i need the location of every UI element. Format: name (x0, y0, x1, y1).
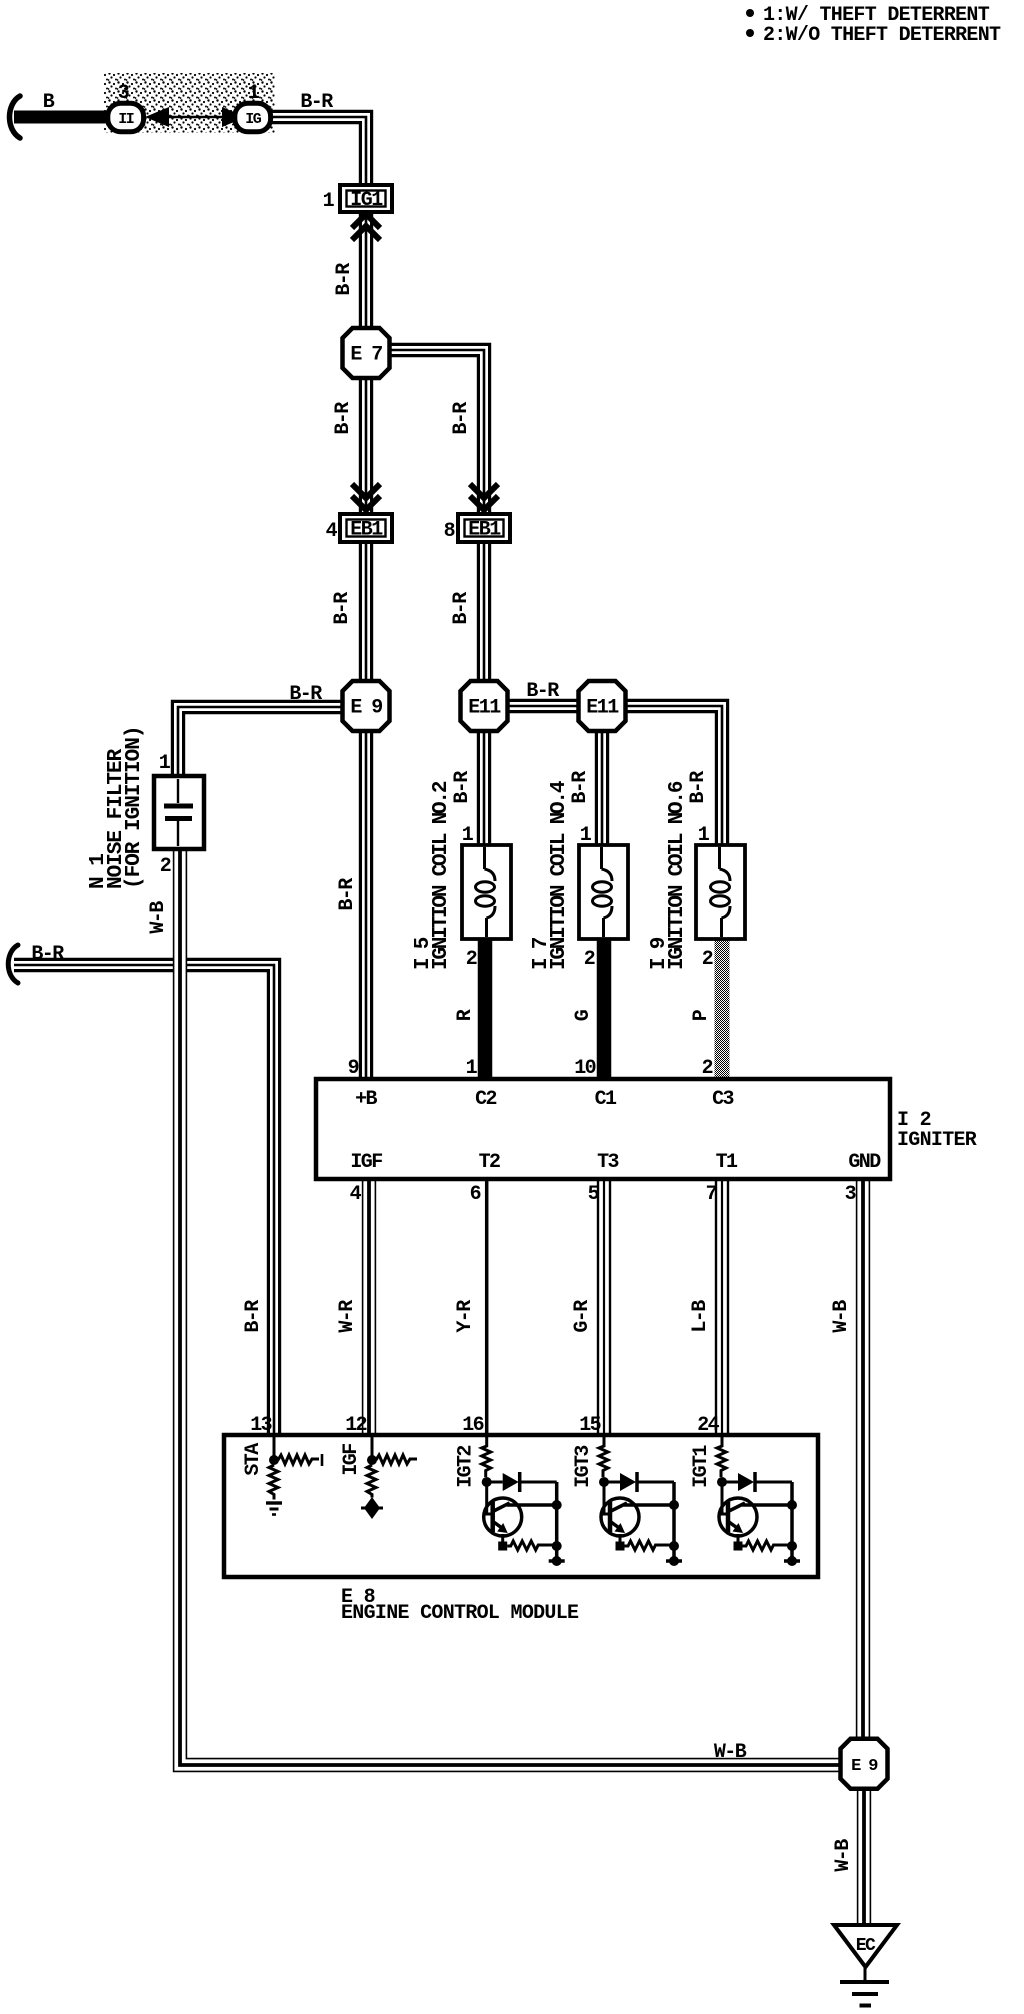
brace wire-continues left top (10, 96, 21, 138)
svg-text:B-R: B-R (526, 680, 559, 703)
svg-text:R: R (454, 1009, 477, 1021)
ECM IGT1 output stage with transistor Q1 (717, 1437, 800, 1566)
igniter I2 box (316, 1079, 890, 1179)
svg-text:B-R: B-R (687, 771, 710, 804)
wire B thick battery feed top-left (14, 111, 112, 124)
svg-text:8: 8 (444, 520, 455, 543)
wire W-B connector E9 down to ground EC (857, 1788, 871, 1927)
svg-text:C1: C1 (595, 1088, 617, 1111)
wire W-B igniter pin 3 GND down to connector E9 (856, 1179, 870, 1740)
connector oval II pin 3 (108, 103, 144, 132)
wire W-R igniter T2pin4 IGF to ECM pin 12 (362, 1179, 376, 1435)
svg-text:B-R: B-R (289, 683, 322, 706)
ECM E8 box (224, 1435, 818, 1577)
wire R ignition coil no.2 pin 2 to igniter C2 (478, 939, 493, 1081)
svg-text:B-R: B-R (450, 592, 473, 625)
svg-text:T1: T1 (716, 1151, 738, 1174)
svg-text:B-R: B-R (450, 402, 473, 435)
connector octagon E9 bottom right (841, 1739, 888, 1789)
connector octagon E9 (343, 681, 390, 731)
svg-text:EB1: EB1 (350, 519, 383, 542)
svg-text:B-R: B-R (31, 943, 64, 966)
connector octagon E11 first (461, 681, 508, 731)
wire B-R connector E7 right branch down to junction EB1 pin8 (388, 350, 484, 515)
wire B-R connector E11 down to ignition coil no.2 pin 1 (477, 730, 491, 846)
svg-text:P: P (690, 1009, 713, 1021)
ground symbol below EC (840, 1965, 889, 2006)
svg-text:E 9: E 9 (350, 697, 382, 720)
svg-text:B-R: B-R (569, 771, 592, 804)
svg-text:B-R: B-R (336, 878, 359, 911)
svg-text:2: 2 (702, 948, 713, 971)
wire B-R between connectors E11 and E11 (484, 699, 602, 713)
svg-text:T2: T2 (479, 1151, 500, 1174)
wire B-R junction EB1 pin4 to connector E9 (359, 542, 373, 706)
wire B-R connector E9 left to noise filter pin 1 (178, 707, 344, 777)
svg-text:EB1: EB1 (468, 519, 501, 542)
svg-text:IG: IG (245, 111, 262, 128)
coil name labels I5 (412, 781, 453, 970)
svg-text:2: 2 (584, 948, 595, 971)
svg-text:1: 1 (323, 190, 335, 213)
wire P ignition coil no.6 pin 2 to igniter C3 (715, 939, 730, 1081)
connector octagon E11 second (579, 681, 626, 731)
svg-text:Y-R: Y-R (454, 1300, 477, 1333)
svg-text:ENGINE CONTROL MODULE: ENGINE CONTROL MODULE (341, 1602, 579, 1625)
ECM STA input: junction, resistor to right, resistor to ground (266, 1437, 322, 1515)
ignition coil no.6 I9 box (696, 845, 745, 939)
svg-text:C3: C3 (712, 1088, 733, 1111)
svg-text:2: 2 (466, 948, 477, 971)
label N 1 / NOISE FILTER / (FOR IGNITION) (87, 727, 146, 889)
wire B-R connector E11 down to ignition coil no.4 pin 1 (595, 730, 609, 846)
svg-text:1: 1 (159, 752, 171, 775)
svg-text:1: 1 (698, 824, 710, 847)
wire B-R from IG connector to junction IG1 (271, 117, 366, 187)
svg-text:II: II (118, 111, 134, 128)
svg-text:IGNITION COIL NO.4: IGNITION COIL NO.4 (548, 781, 571, 970)
wire B-R connector E9 down to igniter pin 9 (+B) (359, 730, 373, 1080)
svg-text:W-B: W-B (830, 1300, 853, 1333)
svg-text:W-B: W-B (147, 901, 170, 934)
ignition coil no.2 I5 box (462, 845, 511, 939)
svg-text:B-R: B-R (300, 91, 333, 114)
svg-text:E11: E11 (586, 697, 619, 720)
svg-text:B-R: B-R (333, 263, 356, 296)
svg-text:5: 5 (588, 1183, 599, 1206)
svg-text:E11: E11 (468, 697, 501, 720)
wire L-B igniter pin 7 T1 to ECM pin 24 (715, 1179, 729, 1435)
svg-text:1: 1 (462, 824, 474, 847)
svg-text:B-R: B-R (451, 771, 474, 804)
junction box EB1 pin 8 (458, 514, 510, 542)
svg-text:IGT2: IGT2 (455, 1446, 478, 1488)
svg-text:24: 24 (697, 1414, 719, 1437)
svg-text:T3: T3 (597, 1151, 618, 1174)
wire B-R connector E11 right branch down to ignition coil no.6 (602, 706, 722, 846)
svg-text:7: 7 (706, 1183, 717, 1206)
wire B-R junction IG1 to connector E7 (359, 211, 373, 332)
connector octagon E7 (343, 328, 390, 378)
svg-text:6: 6 (470, 1183, 481, 1206)
noise filter N1 box with capacitor (154, 776, 204, 849)
junction box IG1 (340, 185, 392, 212)
ECM name label (341, 1586, 579, 1625)
svg-text:IGT1: IGT1 (690, 1445, 713, 1488)
wire G-R igniter pin 5 T3 to ECM pin 15 (597, 1179, 611, 1435)
svg-text:9: 9 (348, 1057, 359, 1080)
svg-text:B-R: B-R (242, 1300, 265, 1333)
svg-text:IG1: IG1 (350, 189, 383, 212)
svg-text:4: 4 (326, 520, 338, 543)
svg-text:1: 1 (248, 82, 260, 105)
svg-text:2: 2 (160, 855, 171, 878)
svg-text:15: 15 (579, 1414, 600, 1437)
wire B-R from left edge to ECM pin 13 (14, 965, 274, 1435)
arrow double chevron down into EB1 pin 8 (470, 484, 498, 510)
svg-text:L-B: L-B (689, 1300, 712, 1333)
coil name labels I7 (530, 781, 571, 970)
svg-text:3: 3 (118, 82, 129, 105)
svg-text:10: 10 (574, 1057, 595, 1080)
igniter name I 2 IGNITER (897, 1109, 977, 1152)
svg-text:+B: +B (355, 1088, 377, 1111)
ECM IGT2 output stage with transistor Q2 (482, 1437, 565, 1566)
svg-text:1: 1 (466, 1057, 478, 1080)
svg-text:B: B (43, 91, 55, 114)
svg-text:B-R: B-R (332, 402, 355, 435)
svg-text:E 9: E 9 (851, 1757, 878, 1776)
wire B-R connector E7 down to junction EB1 pin4 (359, 375, 373, 515)
svg-text:2: 2 (702, 1057, 713, 1080)
ECM IGF input: junction, resistor right, resistor to diamond terminal (361, 1437, 417, 1519)
wire G ignition coil no.4 pin 2 to igniter C1 (597, 939, 612, 1081)
svg-text:EC: EC (856, 1936, 876, 1956)
svg-text:4: 4 (350, 1183, 362, 1206)
svg-text:(FOR IGNITION): (FOR IGNITION) (123, 727, 146, 889)
svg-text:2:W/O THEFT DETERRENT: 2:W/O THEFT DETERRENT (763, 24, 1001, 47)
svg-text:B-R: B-R (331, 592, 354, 625)
svg-text:IGNITER: IGNITER (897, 1129, 977, 1152)
brace wire-continues left at B-R feed (8, 945, 18, 983)
connector oval IG pin 1 (235, 103, 271, 132)
svg-text:3: 3 (845, 1183, 856, 1206)
svg-text:G-R: G-R (571, 1300, 594, 1333)
arrow double chevron up into IG1 (352, 214, 380, 240)
svg-text:STA: STA (242, 1443, 265, 1476)
ignition coil no.4 I7 box (579, 845, 628, 939)
svg-text:13: 13 (250, 1414, 271, 1437)
wire B-R junction EB1 pin8 to connector E11 (477, 542, 491, 706)
svg-text:C2: C2 (475, 1088, 496, 1111)
svg-text:IGF: IGF (350, 1151, 382, 1174)
svg-text:W-R: W-R (336, 1300, 359, 1333)
svg-text:1: 1 (580, 824, 592, 847)
svg-text:IGF: IGF (340, 1444, 363, 1476)
ground terminal EC triangle (834, 1925, 897, 1967)
junction box EB1 pin 4 (340, 514, 392, 542)
wire Y-R igniter pin 6 T2 to ECM pin 16 (485, 1179, 489, 1435)
svg-text:W-B: W-B (714, 1741, 747, 1764)
svg-text:G: G (572, 1009, 595, 1021)
svg-text:IGNITION COIL NO.2: IGNITION COIL NO.2 (430, 781, 453, 970)
note text theft deterrent (746, 4, 1001, 47)
svg-text:IGT3: IGT3 (572, 1446, 595, 1488)
coil name labels I9 (648, 781, 689, 970)
svg-text:E 7: E 7 (350, 344, 382, 367)
arrow double chevron down into EB1 pin 4 (352, 484, 380, 510)
svg-text:16: 16 (462, 1414, 483, 1437)
svg-text:W-B: W-B (832, 1839, 855, 1872)
shaded stipple region top-left (104, 73, 275, 133)
wire arrow link between II and IG connectors (145, 107, 246, 127)
ECM IGT3 output stage with transistor Q3 (599, 1437, 682, 1566)
wire W-B noise filter pin 2 down and right to connector E9 (180, 849, 840, 1765)
svg-text:12: 12 (345, 1414, 366, 1437)
svg-text:GND: GND (848, 1151, 881, 1174)
svg-text:IGNITION COIL NO.6: IGNITION COIL NO.6 (666, 781, 689, 970)
